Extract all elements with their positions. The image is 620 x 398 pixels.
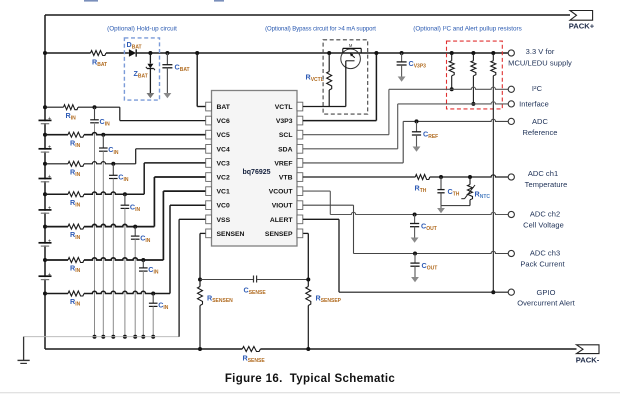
- svg-text:CIN: CIN: [158, 300, 169, 311]
- svg-text:ADC: ADC: [532, 117, 549, 126]
- capacitor COUT (ch3): [410, 252, 437, 278]
- pin VREF (right 5): [274, 159, 302, 168]
- capacitor CIN 6: [139, 260, 159, 276]
- capacitor CV3P3: [397, 51, 427, 77]
- battery cell 5: [39, 238, 52, 246]
- resistor RIN 3: [68, 161, 84, 178]
- svg-text:VC1: VC1: [217, 189, 230, 196]
- resistor pullup 3: [491, 51, 496, 294]
- svg-text:RIN: RIN: [70, 198, 81, 209]
- wire V3P3 riser to supply rail: [303, 120, 377, 122]
- capacitor COUT (ch2): [410, 213, 437, 238]
- svg-text:CIN: CIN: [118, 173, 129, 184]
- svg-text:RSENSE: RSENSE: [243, 354, 266, 365]
- ground for COUT ch3: [411, 277, 419, 282]
- wire tap 5 jog to pin: [153, 177, 155, 227]
- svg-text:(Optional) I²C and Alert pullu: (Optional) I²C and Alert pullup resistor…: [413, 26, 522, 33]
- wire SDA route: [303, 148, 398, 150]
- node CIN 4 junction: [123, 192, 127, 196]
- svg-text:CIN: CIN: [130, 202, 141, 213]
- resistor RTH: [415, 175, 430, 195]
- svg-text:VC5: VC5: [217, 132, 230, 139]
- resistor RSENSEP: [306, 280, 342, 350]
- optional hold-up circuit dashed box: [124, 38, 159, 100]
- ground for ZBAT: [147, 93, 155, 98]
- capacitor CREF: [412, 119, 438, 146]
- svg-text:(Optional) Bypass circuit for: (Optional) Bypass circuit for >4 mA supp…: [265, 27, 376, 33]
- resistor RIN 6: [68, 258, 84, 275]
- svg-text:Overcurrent Alert: Overcurrent Alert: [517, 298, 575, 307]
- wire supply rail DBAT to 3.3V terminal: [136, 52, 508, 54]
- transistor Q1 bypass PMOS: [341, 43, 361, 107]
- wire CIN 4 drop to ground bus: [124, 208, 126, 336]
- node CIN 2 junction: [101, 133, 105, 137]
- svg-text:ZBAT: ZBAT: [134, 69, 148, 80]
- svg-text:RNTC: RNTC: [475, 190, 491, 201]
- svg-text:SENSEN: SENSEN: [217, 231, 245, 238]
- svg-text:RSENSEN: RSENSEN: [207, 294, 233, 305]
- svg-text:VREF: VREF: [274, 160, 292, 167]
- pin VC4 (left 4): [206, 145, 230, 154]
- svg-text:MCU/LEDU supply: MCU/LEDU supply: [508, 59, 572, 68]
- wire tap 4 horizontal: [45, 193, 68, 195]
- svg-text:CIN: CIN: [108, 145, 119, 156]
- wire tap 3 horizontal: [45, 163, 68, 165]
- pin SDA (right 4): [278, 145, 303, 154]
- node CIN 1 on ground bus: [93, 335, 97, 339]
- terminal ADC ch3: [508, 250, 514, 256]
- resistor pullup 2: [471, 51, 476, 106]
- wire tap 1 jog to pin: [119, 107, 121, 120]
- svg-text:Reference: Reference: [522, 128, 557, 137]
- connector flag PACK-: [577, 345, 600, 354]
- pin VC3 (left 5): [206, 159, 230, 168]
- node tap 2 junction on left rail: [43, 133, 47, 137]
- pin VSS (left 9): [206, 215, 231, 224]
- svg-text:Pack Current: Pack Current: [520, 259, 565, 268]
- svg-text:BAT: BAT: [217, 104, 231, 111]
- svg-text:COUT: COUT: [421, 222, 437, 233]
- battery cell 6: [39, 272, 52, 280]
- resistor RSENSE: [242, 347, 265, 365]
- wire SENSEP: [303, 232, 309, 234]
- resistor RSENSEN: [198, 280, 234, 350]
- wire tap 6 horizontal: [45, 259, 68, 261]
- node tap 4 junction on left rail: [43, 192, 47, 196]
- svg-text:RIN: RIN: [70, 264, 81, 275]
- wire CIN 7 drop to ground bus: [152, 306, 154, 336]
- wire CIN 1 drop to ground bus: [94, 123, 96, 337]
- wire tap 4 jog to pin: [143, 163, 145, 194]
- resistor RVCTL: [306, 51, 332, 107]
- node SENSEP / CSENSE junction: [306, 278, 310, 282]
- pin V3P3 (right 2): [276, 116, 303, 125]
- wire VTB to RTH: [303, 176, 416, 178]
- svg-text:RIN: RIN: [70, 138, 81, 149]
- diode DBAT: [127, 40, 142, 57]
- svg-text:VCTL: VCTL: [275, 104, 293, 111]
- svg-text:RVCTL: RVCTL: [306, 73, 324, 84]
- pin ALERT (right 9): [270, 215, 303, 224]
- battery cell 2: [39, 144, 52, 152]
- wire SCL route: [303, 134, 389, 136]
- svg-text:VTB: VTB: [279, 175, 293, 182]
- svg-text:ADC ch3: ADC ch3: [530, 248, 560, 257]
- svg-text:PACK-: PACK-: [576, 355, 600, 364]
- pin VTB (right 6): [279, 173, 303, 182]
- wire tap 6 jog to pin: [162, 191, 164, 260]
- wire supply rail from left rail to RBAT: [45, 52, 91, 54]
- resistor RBAT: [91, 51, 108, 69]
- svg-text:VC2: VC2: [217, 175, 230, 182]
- svg-text:SENSEP: SENSEP: [265, 231, 293, 238]
- svg-text:RIN: RIN: [70, 230, 81, 241]
- battery cell 3: [39, 174, 52, 182]
- wire tap 7 jog to pin: [169, 205, 171, 293]
- svg-text:VIOUT: VIOUT: [272, 203, 294, 210]
- wire bottom rail (left part): [45, 348, 242, 350]
- node CIN 3 on ground bus: [111, 335, 115, 339]
- page top cropped text fragments: [84, 0, 98, 2]
- wire RBAT to DBAT: [106, 52, 129, 54]
- wire CIN 5 drop to ground bus: [134, 239, 136, 337]
- capacitor CIN 5: [131, 227, 151, 244]
- wire VSS to ground bus: [179, 218, 206, 220]
- svg-text:+: +: [48, 206, 51, 212]
- node SENSEN / CSENSE junction: [198, 278, 202, 282]
- wire left rail: [44, 15, 46, 349]
- svg-text:RIN: RIN: [70, 167, 81, 178]
- svg-text:bq76925: bq76925: [243, 169, 271, 176]
- terminal I2C SDA: [508, 101, 514, 107]
- page bottom separator line: [0, 392, 620, 394]
- resistor RIN 5: [68, 224, 84, 241]
- battery cell 1: [39, 116, 52, 124]
- svg-text:VCOUT: VCOUT: [269, 189, 294, 196]
- node tap 5 junction on left rail: [43, 225, 47, 229]
- svg-text:Interface: Interface: [519, 100, 549, 109]
- svg-text:CREF: CREF: [423, 130, 438, 141]
- svg-text:CV3P3: CV3P3: [409, 59, 427, 70]
- wire tap 5 horizontal: [45, 226, 68, 228]
- svg-text:+: +: [48, 116, 51, 122]
- battery cell 4: [39, 206, 52, 214]
- ground for CREF: [413, 147, 421, 152]
- svg-text:+: +: [48, 174, 51, 180]
- node tap 7 junction on left rail: [43, 292, 47, 296]
- svg-text:CIN: CIN: [148, 265, 159, 276]
- svg-text:COUT: COUT: [422, 261, 438, 272]
- pin VIOUT (right 8): [272, 201, 303, 210]
- ground for CBAT: [164, 93, 172, 98]
- zener ZBAT: [134, 51, 155, 93]
- capacitor CIN 7: [149, 294, 169, 312]
- wire ground bus: [24, 336, 180, 338]
- svg-text:DBAT: DBAT: [127, 40, 142, 51]
- svg-text:CIN: CIN: [140, 233, 151, 244]
- node CIN 7 junction: [151, 292, 155, 296]
- wire CTH/RNTC common: [441, 205, 470, 207]
- svg-text:VSS: VSS: [217, 217, 231, 224]
- node tap 3 junction on left rail: [43, 162, 47, 166]
- resistor pullup 1: [449, 51, 454, 91]
- node RSENSEN on bottom rail: [198, 347, 202, 351]
- svg-text:CTH: CTH: [448, 187, 460, 198]
- pin SENSEN (left 10): [206, 229, 245, 238]
- svg-text:RIN: RIN: [70, 297, 81, 308]
- capacitor CIN 2: [99, 135, 119, 156]
- terminal ADC ch1: [508, 174, 514, 180]
- node CIN 6 on ground bus: [141, 335, 145, 339]
- pin VC2 (left 6): [206, 173, 230, 182]
- node CIN 2 on ground bus: [101, 335, 105, 339]
- wire ALERT route: [303, 218, 339, 220]
- svg-text:3.3 V for: 3.3 V for: [526, 47, 555, 56]
- wire VCTL to RVCTL and gate: [303, 106, 346, 108]
- svg-text:GPIO: GPIO: [537, 288, 556, 297]
- wire CIN 6 drop to ground bus: [142, 271, 144, 337]
- svg-text:PACK+: PACK+: [569, 22, 595, 31]
- resistor RIN 4: [68, 192, 84, 209]
- optional bypass circuit dashed box: [323, 40, 368, 114]
- wire tap 2 horizontal: [45, 134, 68, 136]
- node CIN 3 junction: [111, 162, 115, 166]
- wire tap 7 horizontal: [45, 293, 68, 295]
- terminal ADC reference: [508, 118, 514, 124]
- svg-text:VC3: VC3: [217, 160, 230, 167]
- svg-text:ADC ch2: ADC ch2: [530, 209, 560, 218]
- wire BAT pin riser: [195, 51, 199, 55]
- svg-text:VC0: VC0: [217, 203, 230, 210]
- svg-text:CSENSE: CSENSE: [244, 286, 267, 297]
- pin SENSEP (right 10): [265, 229, 303, 238]
- pin VC1 (left 7): [206, 187, 230, 196]
- svg-text:CIN: CIN: [100, 117, 111, 128]
- svg-text:RIN: RIN: [66, 111, 77, 122]
- pin VCTL (right 1): [275, 102, 303, 111]
- svg-text:Cell Voltage: Cell Voltage: [523, 220, 564, 229]
- pin VC6 (left 2): [206, 116, 230, 125]
- node tap 6 junction on left rail: [43, 258, 47, 262]
- svg-text:I²C: I²C: [532, 84, 543, 93]
- svg-text:SDA: SDA: [278, 146, 292, 153]
- node CIN 1 junction: [93, 105, 97, 109]
- resistor RIN 2: [68, 132, 84, 149]
- chassis ground symbol: [18, 337, 30, 364]
- svg-text:Temperature: Temperature: [525, 180, 568, 189]
- node CIN 5 junction: [133, 225, 137, 229]
- svg-text:VC4: VC4: [217, 146, 230, 153]
- capacitor CBAT: [162, 51, 189, 93]
- ground for CTH node: [440, 206, 442, 208]
- wire tap 1 horizontal: [45, 106, 64, 108]
- svg-text:(Optional) Hold-up circuit: (Optional) Hold-up circuit: [107, 26, 177, 33]
- svg-text:Figure 16. Typical Schematic: Figure 16. Typical Schematic: [225, 373, 396, 385]
- node RSENSEP on bottom rail: [306, 347, 310, 351]
- connector flag PACK+: [570, 11, 593, 21]
- capacitor CTH: [437, 175, 459, 206]
- wire CIN 2 drop to ground bus: [102, 151, 104, 337]
- terminal I2C SCL: [508, 86, 514, 92]
- node CIN 6 junction: [141, 258, 145, 262]
- wire VREF route: [303, 162, 403, 164]
- node CIN 5 on ground bus: [133, 335, 137, 339]
- svg-text:+: +: [48, 144, 51, 150]
- wire CIN 3 drop to ground bus: [112, 179, 114, 337]
- terminal ADC ch2: [508, 211, 514, 217]
- terminal GPIO: [508, 289, 514, 295]
- capacitor CIN 4: [121, 194, 141, 213]
- pin VC5 (left 3): [206, 130, 230, 139]
- pin VCOUT (right 7): [269, 187, 303, 196]
- resistor RIN 7: [68, 291, 84, 308]
- svg-text:SCL: SCL: [279, 132, 293, 139]
- capacitor CIN 3: [109, 164, 129, 183]
- wire VIOUT route: [303, 204, 354, 206]
- resistor RIN 1: [64, 105, 79, 122]
- svg-text:ALERT: ALERT: [270, 217, 294, 224]
- node CIN 4 on ground bus: [123, 335, 127, 339]
- svg-text:+: +: [48, 238, 51, 244]
- svg-text:+: +: [48, 272, 51, 278]
- svg-text:RBAT: RBAT: [92, 58, 107, 69]
- terminal 3.3V supply: [508, 50, 514, 56]
- thermistor RNTC: [461, 175, 490, 206]
- junction on left rail at supply: [43, 51, 47, 55]
- capacitor CSENSE: [200, 276, 308, 297]
- svg-text:M: M: [349, 43, 353, 48]
- pin VC0 (left 8): [206, 201, 230, 210]
- ground for CV3P3: [398, 77, 406, 82]
- svg-text:RSENSEP: RSENSEP: [316, 294, 342, 305]
- svg-text:CBAT: CBAT: [175, 63, 190, 74]
- capacitor CIN 1: [90, 107, 110, 127]
- wire ADC ch1 line: [430, 175, 508, 177]
- svg-text:ADC ch1: ADC ch1: [528, 169, 558, 178]
- optional I2C/Alert pullup resistors dashed box: [447, 41, 503, 109]
- pin SCL (right 3): [279, 130, 303, 139]
- svg-text:RTH: RTH: [415, 184, 427, 195]
- op IC U1 bq76925 body: [212, 91, 298, 247]
- wire PACK+ top rail: [45, 14, 570, 16]
- pin BAT (left 1): [206, 102, 231, 111]
- node tap 1 junction on left rail: [43, 105, 47, 109]
- wire VCOUT route: [303, 190, 331, 192]
- svg-text:VC6: VC6: [217, 118, 230, 125]
- wire bottom rail (right part): [260, 348, 576, 350]
- svg-text:V3P3: V3P3: [276, 118, 293, 125]
- wire SENSEN down: [200, 232, 206, 234]
- ground for COUT ch2: [411, 238, 419, 243]
- wire tap 3 jog to pin: [135, 149, 137, 164]
- node CIN 7 on ground bus: [151, 335, 155, 339]
